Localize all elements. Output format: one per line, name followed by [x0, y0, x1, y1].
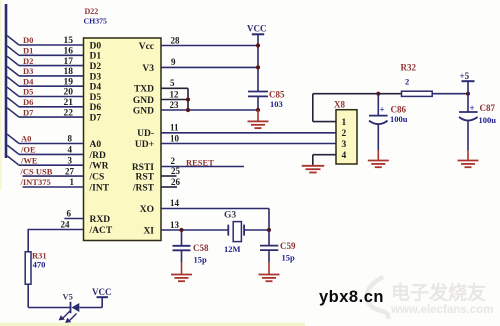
- svg-text:100u: 100u: [390, 114, 408, 124]
- svg-text:2: 2: [171, 156, 176, 166]
- svg-text:RESET: RESET: [186, 157, 214, 167]
- svg-text:Vcc: Vcc: [139, 42, 154, 52]
- svg-text:20: 20: [64, 88, 74, 98]
- svg-text:A0: A0: [21, 134, 31, 144]
- svg-text:/RD: /RD: [89, 151, 107, 161]
- svg-text:D4: D4: [23, 76, 34, 86]
- svg-text:/INT: /INT: [89, 183, 110, 193]
- svg-text:3: 3: [68, 155, 73, 165]
- svg-text:X8: X8: [334, 100, 345, 110]
- svg-text:D7: D7: [90, 114, 102, 124]
- svg-text:28: 28: [171, 35, 181, 45]
- svg-text:D3: D3: [23, 66, 33, 76]
- svg-text:D0: D0: [23, 35, 33, 45]
- svg-text:XI: XI: [143, 226, 154, 236]
- svg-text:/WE: /WE: [20, 155, 38, 165]
- svg-text:4: 4: [68, 145, 73, 155]
- svg-text:电子发烧友: 电子发烧友: [391, 281, 486, 304]
- svg-text:D4: D4: [90, 83, 102, 93]
- svg-text:D6: D6: [90, 103, 102, 113]
- svg-text:2: 2: [405, 77, 409, 87]
- svg-text:100u: 100u: [479, 115, 497, 125]
- svg-text:103: 103: [270, 99, 283, 109]
- svg-text:GND: GND: [133, 96, 154, 106]
- svg-text:2: 2: [342, 129, 347, 139]
- svg-text:D3: D3: [90, 72, 102, 82]
- svg-text:D2: D2: [90, 62, 102, 72]
- svg-text:17: 17: [64, 57, 74, 67]
- svg-text:RST: RST: [136, 172, 155, 182]
- svg-text:C59: C59: [280, 241, 296, 251]
- svg-text:A0: A0: [90, 140, 102, 150]
- svg-text:C85: C85: [269, 90, 285, 100]
- svg-text:VCC: VCC: [92, 287, 112, 297]
- svg-text:RXD: RXD: [90, 215, 111, 225]
- svg-text:UD+: UD+: [135, 140, 154, 150]
- svg-text:15p: 15p: [194, 255, 208, 265]
- svg-text:D6: D6: [23, 97, 33, 107]
- svg-text:15p: 15p: [282, 252, 296, 262]
- svg-text:C58: C58: [193, 243, 209, 253]
- svg-text:G3: G3: [224, 210, 236, 220]
- svg-text:RSTI: RSTI: [132, 163, 154, 173]
- svg-text:6: 6: [67, 208, 72, 218]
- svg-text:13: 13: [170, 220, 180, 230]
- svg-text:10: 10: [170, 133, 180, 143]
- svg-text:D7: D7: [23, 107, 34, 117]
- svg-text:V3: V3: [142, 64, 154, 74]
- svg-text:/CS USB: /CS USB: [20, 166, 53, 176]
- svg-text:1: 1: [342, 118, 347, 128]
- svg-text:/INT375: /INT375: [20, 177, 51, 187]
- svg-text:22: 22: [64, 108, 74, 118]
- svg-text:18: 18: [64, 67, 74, 77]
- svg-text:5: 5: [170, 78, 175, 88]
- svg-text:CH375: CH375: [84, 16, 107, 25]
- svg-text:9: 9: [171, 57, 176, 67]
- svg-text:D5: D5: [90, 93, 102, 103]
- svg-text:24: 24: [61, 219, 71, 229]
- svg-text:12: 12: [170, 90, 180, 100]
- svg-text:VCC: VCC: [247, 24, 267, 34]
- svg-text:19: 19: [64, 77, 74, 87]
- svg-text:C87: C87: [480, 103, 496, 113]
- svg-text:UD-: UD-: [137, 129, 154, 139]
- svg-text:27: 27: [65, 166, 75, 176]
- svg-text:D1: D1: [90, 52, 102, 62]
- svg-text:ybx8.cn: ybx8.cn: [319, 288, 384, 306]
- svg-text:+: +: [380, 105, 385, 115]
- svg-text:D5: D5: [23, 87, 33, 97]
- svg-text:4: 4: [342, 151, 347, 161]
- svg-text:/ACT: /ACT: [89, 226, 113, 236]
- svg-text:21: 21: [64, 98, 74, 108]
- svg-text:XO: XO: [140, 205, 154, 215]
- svg-text:25: 25: [171, 166, 181, 176]
- svg-text:15: 15: [64, 36, 74, 46]
- svg-text:/RST: /RST: [132, 183, 155, 193]
- svg-text:/CS: /CS: [89, 173, 105, 183]
- svg-text:D1: D1: [23, 46, 33, 56]
- svg-text:16: 16: [64, 47, 74, 57]
- svg-text:12M: 12M: [224, 244, 241, 254]
- svg-text:/OE: /OE: [20, 145, 36, 155]
- svg-text:D22: D22: [85, 7, 99, 16]
- svg-text:11: 11: [170, 123, 179, 133]
- svg-text:/WR: /WR: [89, 162, 109, 172]
- svg-text:GND: GND: [133, 106, 154, 116]
- svg-text:470: 470: [33, 260, 46, 270]
- svg-text:8: 8: [68, 134, 73, 144]
- svg-text:+5: +5: [460, 71, 470, 81]
- svg-text:D0: D0: [90, 41, 102, 51]
- svg-text:D2: D2: [23, 56, 33, 66]
- svg-text:26: 26: [171, 177, 181, 187]
- svg-text:23: 23: [170, 100, 180, 110]
- svg-text:14: 14: [170, 198, 180, 208]
- svg-text:3: 3: [342, 140, 347, 150]
- svg-text:V5: V5: [63, 291, 73, 301]
- svg-text:+: +: [470, 103, 475, 113]
- svg-text:R32: R32: [401, 63, 417, 73]
- svg-text:1: 1: [70, 177, 75, 187]
- svg-text:www.elecfans.com: www.elecfans.com: [390, 304, 493, 316]
- svg-text:TXD: TXD: [134, 85, 154, 95]
